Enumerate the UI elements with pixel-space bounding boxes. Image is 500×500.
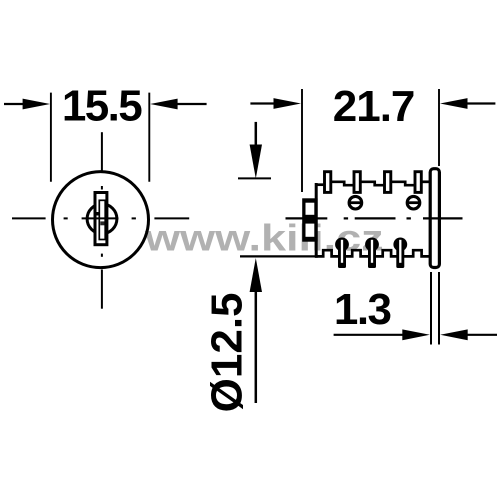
front view inner core circle [87, 204, 117, 234]
cam window lower [306, 224, 315, 237]
front view horizontal centerline [12, 217, 189, 219]
keyhole ward blob right [100, 221, 104, 225]
side view centerline [286, 217, 463, 219]
pin 2 [365, 238, 379, 269]
dimension 1.3 [334, 272, 497, 345]
side view cam protrusion [302, 198, 317, 241]
svg-text:21.7: 21.7 [333, 82, 415, 131]
spring tab 3 [385, 172, 391, 193]
spring tab 2 [354, 172, 360, 193]
svg-text:15.5: 15.5 [62, 82, 142, 131]
keyhole outer rectangle [95, 193, 107, 245]
body top edge castellated [315, 182, 430, 185]
svg-text:www.kili.cz: www.kili.cz [144, 217, 384, 258]
keyhole slot [99, 200, 105, 239]
dimension diameter 12.5 [202, 122, 315, 412]
keyhole ward nub left [97, 212, 99, 216]
pin 1 [335, 238, 349, 269]
spring tab 1 [325, 172, 331, 193]
body left edge [315, 183, 318, 258]
dimension 21.7 [250, 82, 495, 192]
cam window upper [306, 203, 315, 215]
front view vertical centerline [101, 132, 103, 309]
flange [430, 169, 439, 268]
svg-text:1.3: 1.3 [334, 285, 391, 334]
front view outer circle [53, 172, 149, 268]
screw hole 2 [407, 196, 420, 209]
pin 3 [393, 238, 407, 269]
spring tab 4 [415, 172, 421, 193]
screw hole 1 [349, 196, 362, 209]
body bottom edge castellated [315, 250, 430, 256]
dimension 15.5 [4, 82, 207, 182]
svg-text:Ø12.5: Ø12.5 [202, 292, 251, 412]
